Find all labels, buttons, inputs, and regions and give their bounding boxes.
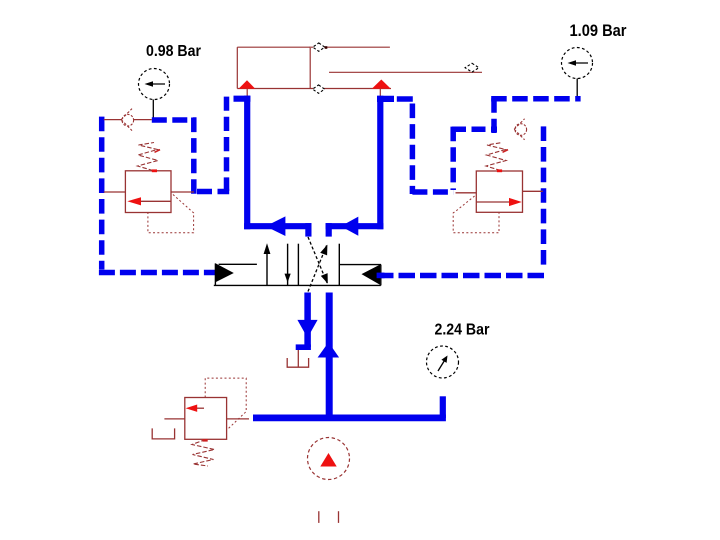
pilot wire: left top horizontal (gauge/check line) — [152, 117, 197, 123]
pilot wire: right inner vertical (x=453.2) — [450, 127, 456, 190]
reducing valve right: body — [476, 171, 522, 212]
directional valve: right pilot box — [340, 264, 382, 266]
directional valve: crossed path A (down) — [308, 237, 327, 283]
pilot wire: right tap vertical (x=412.4) — [410, 104, 416, 195]
pump P1: circle — [308, 438, 350, 480]
pilot wire: right short horizontal (y=192) — [412, 189, 453, 195]
relief valve bottom: pilot dotted line — [205, 378, 246, 429]
wire: main line right horizontal to valve — [326, 223, 384, 229]
sensor diamond top — [313, 43, 325, 51]
pilot wire: left inner vertical (x=194) — [191, 118, 197, 194]
reducing valve right: flow line and arrow — [476, 201, 512, 203]
reducing valve left: flow line and arrow — [138, 200, 171, 202]
pilot dash dot over right pilot triangle — [377, 273, 385, 279]
wire: valve bottom right port to pump line — [326, 293, 333, 419]
directional valve: bottom rail — [214, 284, 381, 286]
check valve right: seat V — [514, 119, 524, 140]
wire: main line left vertical — [244, 96, 250, 230]
flow arrow on left main (pointing left) — [266, 216, 286, 236]
sensor diamond bottom — [313, 85, 325, 93]
reducing valve right: outlet port wire — [523, 190, 543, 192]
pressure gauge bottom (2.24 Bar) — [427, 346, 459, 378]
pump tank ticks — [318, 511, 320, 523]
wire: main line left horizontal to valve — [244, 223, 311, 229]
flow arrow on right main (pointing left) — [341, 217, 359, 236]
directional valve: up arrow path — [266, 247, 268, 285]
cylinder port stem left — [246, 89, 248, 96]
wire: main line right (rod end) stub — [377, 96, 394, 102]
reducing valve left: spring — [138, 143, 159, 171]
relief valve bottom: left port wire — [164, 418, 184, 420]
pressure gauge right (1.09 Bar) — [562, 48, 593, 99]
reducing valve right: spring — [486, 143, 506, 171]
directional valve: left pilot box — [219, 263, 257, 265]
pressure gauge left (0.98 Bar) — [139, 69, 170, 121]
relief valve bottom: spring below — [192, 440, 215, 467]
wire: right valve top port drop — [326, 223, 332, 237]
wire: main line left (cap end) stub — [234, 96, 251, 102]
pilot wire: right outer vertical (x=543.5) — [541, 126, 547, 268]
pilot wire: right bottom horizontal to valve pilot — [377, 273, 546, 279]
sensor diamond on rod — [465, 63, 479, 72]
relief valve bottom: arrow — [192, 407, 204, 409]
check valve right: ball — [515, 124, 527, 136]
pilot wire: left bottom horizontal to valve pilot — [99, 270, 216, 276]
directional valve: position divider verticals — [297, 244, 299, 286]
directional valve: crossed path B (up) — [308, 245, 327, 291]
cylinder port arrow left (red) — [239, 80, 256, 89]
flow arrow up on pump riser — [318, 342, 340, 357]
reducing valve left: body — [125, 171, 171, 213]
svg-text:1.09 Bar: 1.09 Bar — [570, 22, 628, 40]
wire: tank drop foot — [296, 344, 311, 350]
node dot at diamond top — [325, 46, 328, 49]
cylinder piston rod — [329, 71, 482, 73]
relief valve bottom: body — [185, 398, 227, 440]
pilot wire: right tap horizontal dash — [397, 96, 415, 102]
pilot wire: right horizontal at y=129 — [452, 126, 497, 132]
cylinder body — [237, 47, 391, 90]
tank at valve return: vessel — [287, 358, 308, 367]
wire: left valve top port drop — [305, 223, 311, 237]
cylinder port stem right — [379, 89, 381, 96]
directional valve: right pilot triangle — [362, 265, 381, 285]
wire: pump header horizontal — [253, 414, 446, 421]
check valve left: seat V — [121, 109, 132, 131]
reducing valve left: pilot dotted line — [148, 195, 194, 233]
wire: valve bottom left port to tank — [304, 293, 311, 348]
check valve left: ball — [122, 114, 134, 126]
tank at valve return: stem — [297, 350, 299, 367]
wire: main line right vertical — [377, 96, 383, 230]
tank at relief valve — [152, 428, 174, 439]
directional valve: down arrow path — [287, 244, 289, 286]
relief valve bottom: right port wire — [227, 418, 249, 420]
wire: pump header riser to gauge — [440, 396, 446, 418]
reducing valve left: outlet port wire — [171, 191, 194, 193]
svg-text:0.98 Bar: 0.98 Bar — [146, 43, 201, 60]
pilot wire: left tap vertical (x=226.5) — [224, 97, 230, 191]
reducing valve right: inlet port wire — [456, 192, 477, 194]
cylinder port arrow right (red) — [372, 80, 391, 89]
reducing valve left: inlet port wire — [104, 191, 126, 193]
pilot wire: right vertical (x=494) — [491, 98, 497, 133]
svg-text:2.24 Bar: 2.24 Bar — [435, 322, 490, 339]
pilot wire: left short horizontal (y=191.5) — [197, 189, 229, 195]
pilot wire: left outer vertical — [99, 117, 105, 270]
pump P1: triangle — [320, 453, 336, 467]
directional valve: left pilot triangle — [215, 263, 233, 282]
check valve left: port lines — [104, 119, 122, 121]
pilot wire: right top horizontal to gauge — [491, 96, 580, 102]
reducing valve right: pilot dotted line — [453, 196, 499, 233]
flow arrow down on tank drop — [297, 320, 317, 338]
